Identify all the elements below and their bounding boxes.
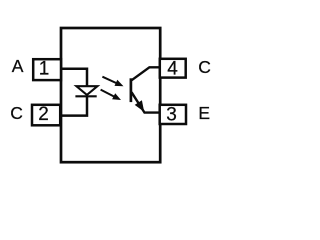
phototransistor Q1 base bar <box>130 78 133 102</box>
pin 4 box <box>160 59 186 78</box>
svg-text:3: 3 <box>166 105 177 126</box>
pin 1 box <box>33 59 61 80</box>
wire pin1 to LED anode <box>61 69 87 87</box>
package body U1 <box>61 28 160 162</box>
LED D1 cathode bar <box>75 95 96 97</box>
pin 3 box <box>160 105 186 124</box>
svg-text:E: E <box>198 103 210 123</box>
phototransistor Q1 collector wire to pin4 <box>132 67 161 80</box>
svg-text:2: 2 <box>38 104 49 125</box>
svg-text:C: C <box>198 57 211 77</box>
pin 2 box <box>32 105 60 126</box>
svg-text:1: 1 <box>39 58 50 79</box>
svg-text:C: C <box>10 103 23 123</box>
phototransistor Q1 emitter arrowhead <box>135 100 145 112</box>
phototransistor Q1 emitter wire to pin3 <box>132 92 161 112</box>
LED D1 triangle <box>76 86 97 95</box>
svg-text:4: 4 <box>167 58 178 79</box>
light arrow lower <box>101 90 121 100</box>
svg-text:A: A <box>12 56 24 76</box>
wire LED cathode to pin2 <box>60 96 87 116</box>
light arrow upper <box>102 77 123 87</box>
